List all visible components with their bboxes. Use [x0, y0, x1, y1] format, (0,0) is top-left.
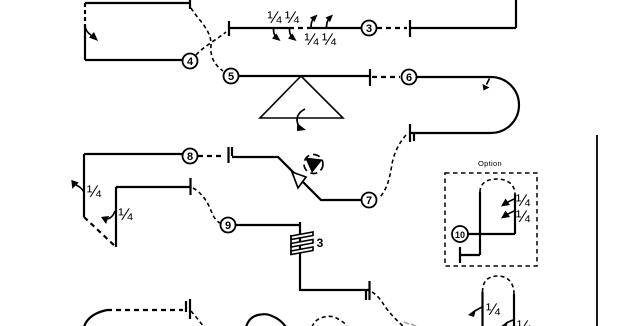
option horizontal line: [468, 233, 515, 235]
svg-text:¼: ¼: [285, 8, 300, 27]
line-2 solid segment: [229, 27, 289, 29]
tick after circle 3: [409, 20, 411, 37]
dashed crossover curve from top tick down to circle 5: [191, 8, 223, 71]
top rectangle left solid segment: [84, 25, 86, 60]
svg-text:7: 7: [366, 195, 372, 207]
vertical line exiting top: [515, 0, 517, 28]
rotation symbol dashed circle: [304, 155, 323, 174]
coil stripe 1: [291, 232, 313, 240]
svg-text:¼: ¼: [517, 317, 532, 326]
arrowhead on U-turn arc: [483, 79, 490, 91]
bottom-right arch right vertical: [513, 294, 515, 326]
step circle 5: [224, 69, 239, 84]
top rectangle left dashed segment: [84, 3, 86, 26]
svg-text:3: 3: [366, 23, 372, 35]
svg-text:Option: Option: [478, 159, 502, 168]
Option box dashed rectangle: [445, 173, 537, 266]
line-4 horizontal to circle 8: [84, 153, 182, 155]
tick at end of top line: [189, 0, 191, 9]
step circle 8: [183, 149, 198, 164]
right border line: [596, 135, 598, 326]
line-2 start tick: [228, 21, 230, 36]
second vertical: [115, 187, 117, 247]
option right vertical: [514, 194, 516, 234]
turn arrow up 1: [310, 15, 318, 28]
option bottom horizontal: [460, 254, 480, 256]
horizontal to tick: [116, 186, 191, 188]
line-3 solid segment: [239, 75, 370, 77]
bottom horizontal from vertical: [300, 289, 370, 291]
arrow on left vertical: [69, 180, 84, 192]
dashed segment after circle 3: [377, 27, 407, 29]
U-turn bottom line: [410, 132, 491, 134]
bottom-right arch left vertical: [481, 292, 483, 326]
svg-text:3: 3: [317, 236, 324, 250]
step circle 10: [452, 226, 468, 242]
vertical with coil: [299, 222, 301, 291]
tick on line-3: [369, 69, 371, 86]
step circle 4: [183, 54, 198, 69]
dashed segment after circle 8: [198, 155, 225, 157]
double tick after circle 8: [227, 147, 229, 163]
svg-text:4: 4: [187, 56, 194, 68]
svg-text:¼: ¼: [516, 207, 531, 226]
solid segment after circle 6: [417, 76, 491, 78]
left vertical of line-4: [83, 154, 85, 217]
bottom bump solid: [246, 314, 286, 326]
option left vertical: [479, 192, 481, 255]
svg-text:¼: ¼: [322, 30, 337, 49]
bottom-left dashed horizontal: [107, 309, 183, 311]
double tick at U-turn bottom: [409, 124, 411, 142]
dashed segment to circle 6: [372, 76, 400, 78]
faint dashes bottom: [404, 322, 416, 326]
line-2 solid segment to circle 3: [310, 27, 361, 29]
step circle 9: [221, 218, 236, 233]
svg-text:¼: ¼: [118, 205, 133, 224]
bottom-left dashed exit curve: [191, 311, 204, 326]
dashed S-curve to circle 9: [193, 188, 220, 223]
dashed S-curve to circle 7: [380, 135, 406, 197]
bottom-right arrow 1: [468, 307, 482, 317]
curved arrow at triangle: [297, 109, 306, 131]
line-2 dashed segment: [289, 27, 310, 29]
top rectangle bottom line: [85, 59, 182, 61]
svg-text:¼: ¼: [267, 8, 282, 27]
svg-text:¼: ¼: [486, 300, 501, 319]
line from circle 7 to diagonal: [232, 157, 361, 200]
bottom-right arrow 2: [506, 320, 513, 323]
svg-text:8: 8: [187, 151, 193, 163]
dashed diagonal bottom left: [84, 217, 116, 247]
bottom-left double tick: [185, 301, 187, 312]
rotation symbol filled triangle: [305, 158, 323, 174]
arrow inside rectangle: [85, 26, 98, 41]
step circle 3: [362, 21, 377, 36]
tick at end: [189, 178, 191, 195]
option arrow 1: [501, 199, 514, 207]
U-turn arc: [491, 77, 519, 133]
triangle below line-3: [260, 76, 343, 118]
option arrow 2: [501, 211, 514, 219]
turn arrow down 1: [272, 29, 281, 41]
svg-text:9: 9: [225, 220, 231, 232]
dashed crossover curve from circle 4 up to line-2 tick: [196, 32, 226, 55]
step circle 6: [402, 70, 417, 85]
option bottom tick: [459, 247, 461, 263]
solid segment to right: [410, 27, 516, 29]
svg-text:6: 6: [406, 72, 412, 84]
dashed curve exiting bottom: [372, 292, 403, 326]
coil left edge: [290, 235, 292, 255]
turn arrow up 2: [326, 15, 334, 28]
double tick bottom: [368, 281, 370, 300]
open arrowhead on diagonal: [292, 172, 306, 188]
step circle 7: [362, 193, 377, 208]
option dashed arch: [480, 179, 515, 194]
bottom-right dashed arch: [483, 276, 515, 294]
coil stripe 3: [291, 247, 313, 255]
svg-text:¼: ¼: [87, 182, 102, 201]
bottom bump dashed: [312, 316, 347, 326]
svg-text:10: 10: [455, 230, 465, 240]
arrow on second vertical: [101, 211, 115, 224]
turn arrow down 2: [288, 29, 297, 41]
svg-text:5: 5: [228, 71, 234, 83]
horizontal from circle 9: [236, 224, 300, 226]
coil stripe 2: [291, 240, 313, 248]
top rectangle top line: [85, 2, 190, 4]
svg-text:¼: ¼: [304, 30, 319, 49]
bottom-left solid curve: [84, 310, 107, 326]
